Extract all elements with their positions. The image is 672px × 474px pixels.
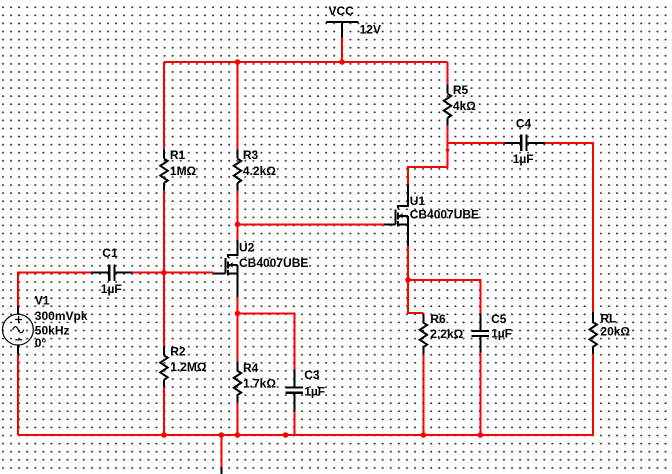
wire R2 bottom to bus xyxy=(163,387,165,435)
wire C3 bottom to bus xyxy=(293,411,295,435)
wire to C4 xyxy=(448,142,505,144)
svg-text:R3: R3 xyxy=(243,148,259,162)
svg-text:12V: 12V xyxy=(360,23,381,37)
svg-text:C5: C5 xyxy=(491,312,507,326)
svg-text:R5: R5 xyxy=(453,83,469,97)
svg-text:RL: RL xyxy=(600,311,616,325)
wire R1 branch top xyxy=(163,62,165,150)
node bus/C5 junction xyxy=(478,432,484,438)
node R5/C4 wire joint xyxy=(446,148,450,152)
wire node to C5 top xyxy=(408,280,480,314)
svg-text:300mVpk: 300mVpk xyxy=(35,309,88,323)
node C1/R1/U2 gate junction xyxy=(161,270,167,276)
svg-text:C1: C1 xyxy=(102,246,118,260)
wire R1 bottom to R2 xyxy=(163,190,165,346)
svg-text:R1: R1 xyxy=(170,148,186,162)
wire U2 source down xyxy=(237,297,239,362)
node bus/ground junction xyxy=(219,432,225,438)
wire R6 bottom to bus xyxy=(422,355,424,436)
resistor R2 xyxy=(160,346,167,387)
resistor R5 xyxy=(444,85,451,126)
node U2 source/R4/C3 junction xyxy=(235,311,241,317)
svg-text:1MΩ: 1MΩ xyxy=(170,164,197,178)
capacitor C5 xyxy=(472,313,490,352)
wire node to C3 top xyxy=(238,313,295,369)
resistor RL xyxy=(590,312,597,354)
svg-text:4kΩ: 4kΩ xyxy=(453,99,476,113)
capacitor C4 xyxy=(505,135,546,152)
svg-text:U2: U2 xyxy=(239,241,255,255)
capacitor C1 xyxy=(91,265,132,282)
svg-text:R6: R6 xyxy=(430,312,446,326)
svg-text:4.2kΩ: 4.2kΩ xyxy=(243,164,276,178)
wire RL bottom to bus xyxy=(592,354,594,435)
svg-text:CB4007UBE: CB4007UBE xyxy=(410,208,479,222)
ground (clipped at bottom) xyxy=(220,468,222,474)
wire top bus xyxy=(164,61,448,63)
svg-text:1µF: 1µF xyxy=(491,327,512,341)
node bus/R6 junction xyxy=(421,432,427,438)
wire VCC stem red xyxy=(341,38,343,62)
svg-text:1µF: 1µF xyxy=(513,152,534,166)
svg-text:U1: U1 xyxy=(410,194,426,208)
source V1 xyxy=(3,306,34,355)
svg-text:0°: 0° xyxy=(35,336,47,350)
svg-text:20kΩ: 20kΩ xyxy=(600,325,630,339)
wire V1 top to C1 xyxy=(18,273,91,306)
resistor R1 xyxy=(160,150,167,191)
svg-text:R2: R2 xyxy=(170,344,186,358)
capacitor C3 xyxy=(285,370,303,412)
svg-text:1.7kΩ: 1.7kΩ xyxy=(243,377,276,391)
svg-text:1.2MΩ: 1.2MΩ xyxy=(170,360,207,374)
node VCC/bus junction xyxy=(339,59,345,65)
wire R5 bottom xyxy=(408,125,448,184)
wire node to U1 gate xyxy=(238,223,385,225)
wire bottom bus xyxy=(18,434,593,436)
node U1 source junction xyxy=(405,277,411,283)
transistor U1 xyxy=(384,185,408,246)
svg-text:2.2kΩ: 2.2kΩ xyxy=(430,327,463,341)
svg-text:C3: C3 xyxy=(304,368,320,382)
svg-text:V1: V1 xyxy=(35,293,50,307)
wire V1 bottom to bus xyxy=(17,355,19,436)
svg-text:C4: C4 xyxy=(516,117,532,131)
node bus/R2 junction xyxy=(161,432,167,438)
resistor R6 xyxy=(420,313,427,354)
wire C1 to U2 gate xyxy=(132,272,214,274)
wire ground stub red xyxy=(220,435,222,468)
transistor U2 xyxy=(214,240,238,297)
wire U1 source down xyxy=(408,246,423,313)
node bus extra junction xyxy=(283,432,289,438)
svg-text:CB4007UBE: CB4007UBE xyxy=(239,256,308,270)
node bus/R4 junction xyxy=(235,432,241,438)
svg-text:R4: R4 xyxy=(243,361,259,375)
node R3/U2 drain/U1 gate junction xyxy=(235,222,241,228)
wire R4 bottom to bus xyxy=(237,402,239,435)
resistor R3 xyxy=(234,150,241,191)
wire R3 branch top xyxy=(237,62,239,150)
wire C5 bottom to bus xyxy=(479,353,481,435)
wire C4 to RL xyxy=(545,143,593,312)
svg-text:VCC: VCC xyxy=(329,4,355,18)
svg-text:1µF: 1µF xyxy=(101,282,122,296)
resistor R4 xyxy=(234,362,241,403)
svg-text:1µF: 1µF xyxy=(304,384,325,398)
node R3/bus junction xyxy=(235,59,241,65)
wire R5 branch top xyxy=(447,62,449,85)
wire R3 bottom to U2 drain xyxy=(237,190,239,240)
power VCC symbol xyxy=(326,22,359,37)
